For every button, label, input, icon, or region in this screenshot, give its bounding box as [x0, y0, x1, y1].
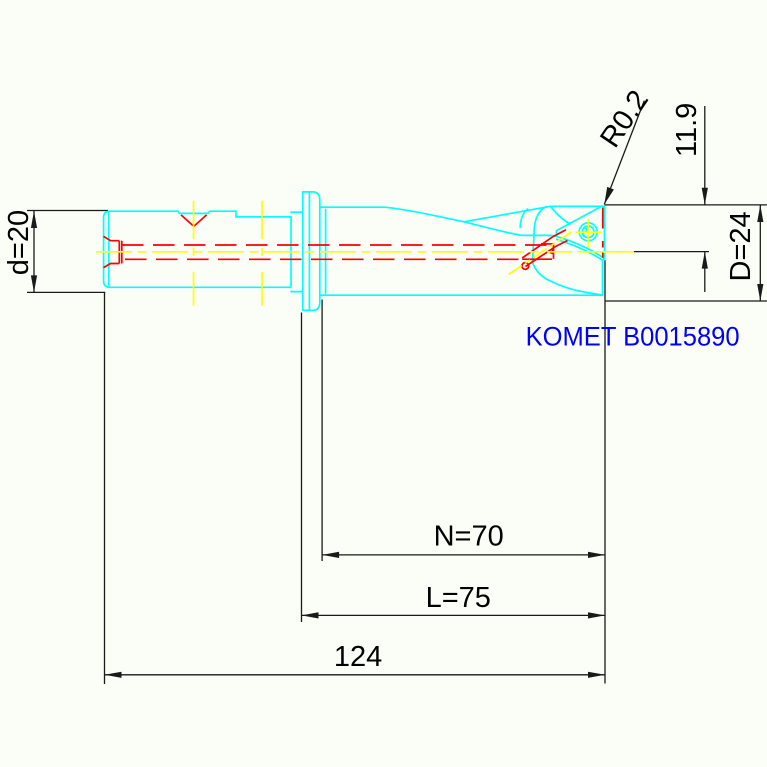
svg-text:N=70: N=70: [434, 521, 504, 553]
svg-text:d=20: d=20: [3, 210, 35, 275]
svg-text:11.9: 11.9: [671, 103, 703, 157]
svg-text:R0.2: R0.2: [594, 85, 655, 154]
svg-text:KOMET B0015890: KOMET B0015890: [526, 321, 740, 351]
svg-text:124: 124: [334, 641, 382, 673]
svg-text:L=75: L=75: [426, 582, 491, 614]
svg-text:D=24: D=24: [725, 211, 757, 281]
